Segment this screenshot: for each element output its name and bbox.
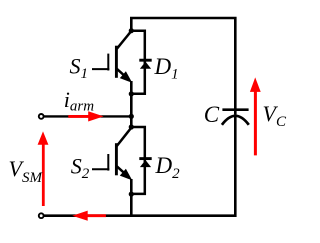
svg-text:iarm: iarm (64, 87, 94, 114)
wire i_arm horizontal (44, 115, 132, 117)
node junction dot S2 emitter / D2 anode (129, 192, 134, 197)
node junction dot top (S1 collector) (129, 28, 134, 33)
diode D1 (139, 60, 151, 68)
capacitor C flat plate (222, 108, 248, 111)
svg-text:D1: D1 (154, 54, 179, 83)
arrow bottom return (red, left) (72, 211, 106, 221)
svg-text:D2: D2 (155, 153, 181, 182)
arrow V_SM (red, up) (38, 131, 49, 206)
terminal bottom left (39, 213, 44, 218)
wire D2 branch loop (131, 127, 145, 194)
wire lower right rail and bottom rail (44, 117, 235, 216)
svg-text:S2: S2 (71, 154, 90, 183)
wire S-branch vertical segment S2 emitter to bottom rail (130, 179, 133, 216)
node junction dot S2 collector (129, 124, 134, 129)
capacitor C curved plate (222, 116, 249, 125)
arrow V_C (red, up) (250, 77, 261, 155)
svg-text:VC: VC (263, 101, 287, 130)
diode D2 (139, 159, 151, 168)
node junction dot S1 emitter / D1 anode (129, 91, 134, 96)
node junction dot midpoint (i_arm) (129, 114, 134, 119)
arrow i_arm (red, right) (68, 111, 103, 121)
svg-text:VSM: VSM (9, 156, 44, 186)
svg-text:C: C (204, 102, 220, 127)
wire top rail and upper right rail (131, 18, 235, 115)
transistor S1 (IGBT) (92, 30, 132, 82)
wire S-branch vertical segment S1 emitter to S2 collector (130, 81, 133, 128)
svg-text:S1: S1 (70, 54, 89, 83)
transistor S2 (IGBT) (92, 127, 132, 180)
terminal top left (39, 114, 44, 119)
wire D1 branch loop (131, 31, 145, 94)
